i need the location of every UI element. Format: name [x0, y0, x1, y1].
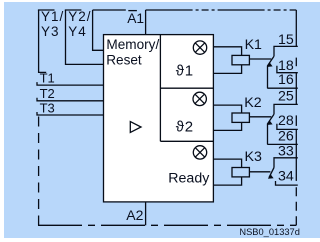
svg-text:ϑ2: ϑ2	[176, 118, 194, 135]
contact K1 blade and bracket to 16	[268, 56, 275, 88]
wire A2 from box bottom	[145, 202, 147, 225]
arrowhead K1 blade	[267, 62, 273, 67]
inner divider horizontal threshold2	[160, 140, 213, 142]
wire T3 with left tick	[37, 112, 104, 115]
relay K3 coil group	[213, 159, 270, 185]
svg-text:28: 28	[278, 113, 294, 129]
link K2 coil to contact blade	[249, 116, 271, 118]
wire setting input into box	[93, 10, 104, 50]
wire terminal 34 stub and line	[276, 181, 298, 185]
lamp L2	[193, 92, 206, 105]
wire terminal 26 line	[267, 143, 298, 145]
top boundary solid segment	[93, 9, 126, 11]
overbar of Y1	[38, 9, 55, 11]
wire K2 bottom stub	[213, 122, 241, 130]
svg-text:Ready: Ready	[168, 170, 210, 186]
svg-text:Y1/: Y1/	[41, 9, 64, 24]
contact K1 (15/18/16)	[267, 46, 298, 104]
link K1 coil to contact blade	[249, 58, 271, 60]
wire K1 top stub	[213, 47, 241, 56]
relay K2 coil group	[213, 105, 271, 130]
wire terminal 33 line with stub	[274, 158, 298, 168]
lamp L3 Ready	[193, 146, 206, 159]
overbar of Y2	[65, 9, 82, 11]
wire Y1/Y3 vertical with foot	[39, 10, 47, 72]
wire K2 top stub	[213, 105, 241, 113]
svg-text:Y4: Y4	[68, 24, 87, 39]
svg-text:Y3: Y3	[41, 24, 60, 39]
svg-text:ϑ1: ϑ1	[176, 63, 194, 80]
arrowhead K3 blade	[268, 174, 274, 179]
wire terminal 16 line	[267, 87, 298, 89]
svg-text:NSB0_01337d: NSB0_01337d	[239, 227, 299, 237]
svg-text:16: 16	[278, 72, 294, 88]
top boundary dash-dot line	[146, 9, 297, 11]
coil K1	[232, 55, 249, 64]
svg-text:Reset: Reset	[106, 53, 142, 68]
wire right vertical 33 to below	[295, 158, 297, 181]
wire T1 with left tick	[37, 82, 104, 85]
contact K3 blade	[269, 168, 274, 178]
svg-text:25: 25	[278, 88, 294, 104]
wire A1 vertical into box top	[145, 10, 147, 35]
inner divider horizontal threshold1	[160, 87, 213, 89]
overbar of A1	[128, 10, 137, 12]
amplifier triangle	[130, 122, 141, 133]
wire terminal 18 stub and line	[277, 66, 298, 73]
svg-text:Memory/: Memory/	[106, 37, 159, 52]
link K3 coil to contact blade	[249, 171, 270, 173]
wire K3 top stub	[213, 159, 241, 167]
contact K3 (33/34)	[269, 158, 298, 185]
svg-text:T2: T2	[40, 86, 55, 101]
wire right vertical mid segment K2	[295, 115, 297, 126]
svg-text:26: 26	[278, 129, 294, 145]
wire right vertical 18-to-25	[295, 73, 297, 105]
wire T2 with left tick	[37, 98, 104, 101]
svg-text:K2: K2	[244, 95, 261, 111]
coil K2	[232, 113, 249, 122]
svg-text:15: 15	[278, 32, 294, 48]
svg-text:A1: A1	[127, 11, 144, 26]
wire terminal 15 line with stub	[274, 46, 298, 56]
svg-text:Y2/: Y2/	[68, 9, 91, 24]
inner divider vertical	[159, 35, 161, 142]
left boundary dashed vertical	[38, 117, 40, 226]
relay K1 coil group	[213, 47, 271, 74]
right boundary dashed vertical below contact 34	[295, 185, 297, 225]
svg-text:T1: T1	[40, 70, 55, 85]
coil K3	[232, 168, 249, 177]
contact K2 blade and bracket to 26	[268, 114, 275, 144]
lamp L1	[193, 41, 206, 54]
wire terminal 25 line with stub	[274, 104, 298, 114]
contact K2 (25/28/26)	[267, 104, 298, 157]
wire K1 bottom stub	[213, 65, 241, 74]
svg-text:K3: K3	[245, 149, 262, 165]
right boundary vertical wire segment to contact 15	[295, 10, 297, 46]
wire K3 bottom stub	[213, 177, 241, 185]
wire right vertical mid segment K1	[295, 58, 297, 67]
main device box U1	[104, 35, 214, 202]
arrowhead K2 blade	[267, 120, 273, 125]
svg-text:A2: A2	[126, 207, 143, 223]
svg-text:34: 34	[278, 169, 294, 185]
svg-text:T3: T3	[40, 100, 55, 115]
bottom boundary dashed horizontal	[38, 224, 296, 226]
svg-text:K1: K1	[245, 37, 262, 53]
svg-text:33: 33	[278, 144, 294, 160]
wire Y2/Y4 vertical into box	[66, 10, 104, 64]
wire terminal 28 stub and line	[277, 124, 298, 130]
wire right vertical 28-to-33	[295, 129, 297, 157]
